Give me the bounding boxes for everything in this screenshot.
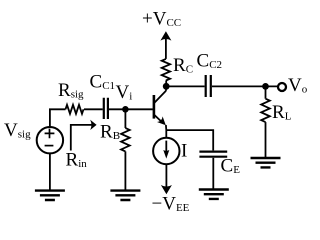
wire CC1 to base [109,108,153,110]
resistor RC [162,59,170,81]
wire emitter to current source [165,125,167,138]
node Vi [122,106,129,113]
capacitor CC1 [104,98,108,119]
ground (RL) [251,158,281,167]
node Vo junction [262,83,269,90]
wire Vo node to RL [265,86,267,98]
collector node [163,83,170,90]
wire CC2 to Vo [212,85,278,87]
capacitor CE [199,152,227,157]
ground (CE) [199,190,229,199]
wire Vsig top to Rsig [50,109,66,127]
ground (Vsig) [35,191,65,200]
resistor RB [121,128,130,151]
wire collector to CC2 [169,85,204,87]
wire Vsig bottom to ground [49,153,51,190]
capacitor CC2 [206,75,211,97]
wire RL to ground [265,122,267,158]
wire RC to VCC arrow [165,39,167,59]
wire emitter to CE [166,130,213,150]
voltage source Vsig [37,127,63,153]
current source I [153,138,179,164]
wire current source to VEE arrow [165,164,167,188]
wire Rsig to CC1 [84,108,103,110]
wire RB to ground [124,151,126,190]
transistor Q1 [154,91,166,125]
terminal Vo [278,83,286,91]
VEE arrow [161,185,172,194]
ground (RB) [110,191,140,200]
wire collector node to RC [165,81,167,91]
wire CE to ground [212,158,214,190]
resistor Rsig [66,105,84,114]
Rin arrow [71,125,92,151]
svg-text:I: I [181,141,187,162]
VCC arrow [160,31,171,40]
resistor RL [261,99,270,122]
wire Vi to RB [124,109,126,128]
